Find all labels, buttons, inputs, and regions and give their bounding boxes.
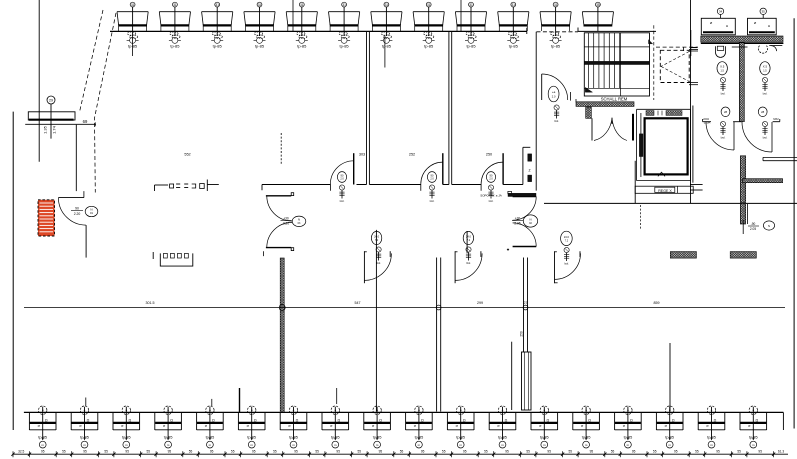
cell 2 door xyxy=(455,251,482,283)
canopy dashed edge 2 xyxy=(95,13,117,193)
window B2 line extension xyxy=(85,398,87,407)
wall stub below door D1 xyxy=(85,225,87,258)
wc symbol 2 xyxy=(762,77,767,95)
window W3 (top wall) xyxy=(202,2,233,48)
grid line right xyxy=(690,0,692,203)
svg-text:95: 95 xyxy=(463,449,467,453)
dim node hatch-cross xyxy=(279,305,285,311)
wc symbol 1 xyxy=(720,77,725,95)
svg-text:2.0: 2.0 xyxy=(552,95,556,99)
toilet door 1 xyxy=(706,122,734,150)
svg-text:61.3: 61.3 xyxy=(778,449,784,453)
svg-text:95: 95 xyxy=(674,449,678,453)
cell 1 door xyxy=(364,251,391,283)
hatched wall toilets xyxy=(701,36,784,43)
svg-text:859: 859 xyxy=(654,301,660,305)
svg-text:55: 55 xyxy=(737,449,741,453)
lobby door jamb dashes xyxy=(640,205,642,229)
svg-text:95: 95 xyxy=(168,449,172,453)
window B16 (bottom wall) xyxy=(656,406,683,448)
partition wall P3 xyxy=(535,32,537,191)
window W1 centre line extension xyxy=(132,36,134,56)
svg-text:301.5: 301.5 xyxy=(146,301,155,305)
door D5 label xyxy=(512,215,538,227)
niche lines xyxy=(763,157,797,160)
cell 3 door xyxy=(555,251,581,283)
wc label 2 xyxy=(760,62,770,75)
cell 2 line xyxy=(466,231,468,253)
svg-text:-90: -90 xyxy=(751,222,756,226)
stair dashed rail xyxy=(653,25,655,100)
wall stub xyxy=(511,342,513,410)
svg-text:95: 95 xyxy=(41,449,45,453)
door D6 (to stair lobby) xyxy=(542,74,586,102)
hatched partition toilets xyxy=(739,43,744,122)
staircase xyxy=(584,33,652,96)
window B6 (bottom wall) xyxy=(238,406,265,448)
svg-text:24.0: 24.0 xyxy=(374,234,380,238)
wall end bottom right xyxy=(782,412,784,430)
wc symbol 4 xyxy=(762,121,767,139)
column hatch 1 xyxy=(670,252,696,259)
wall stub below lift xyxy=(634,161,636,204)
door D1 swing xyxy=(58,198,86,226)
lift counterweight xyxy=(646,111,682,116)
svg-text:32.5: 32.5 xyxy=(18,449,24,453)
svg-text:35: 35 xyxy=(762,10,766,14)
svg-text:55: 55 xyxy=(611,449,615,453)
svg-text:X.5: X.5 xyxy=(720,65,725,69)
counter / furniture 1 xyxy=(155,180,219,192)
window B8 (bottom wall) xyxy=(322,406,349,448)
lift shaft dashed xyxy=(656,47,698,85)
svg-text:28: 28 xyxy=(761,110,765,114)
partition wall P4 xyxy=(437,258,441,412)
window B15 (bottom wall) xyxy=(615,406,642,448)
svg-text:2204: 2204 xyxy=(703,117,709,121)
hatched partition lower xyxy=(740,203,745,224)
window W6 (top wall) xyxy=(329,2,360,48)
lift machine box xyxy=(635,186,693,193)
hatched partition toilets 2 xyxy=(740,156,745,203)
acoustic wall Z xyxy=(523,147,532,184)
svg-text:55: 55 xyxy=(569,449,573,453)
svg-text:552: 552 xyxy=(184,153,190,157)
door D6 label xyxy=(548,86,559,102)
toilet wall line xyxy=(703,117,780,122)
wc shelf line 2 xyxy=(769,45,782,47)
door D7 label xyxy=(743,220,774,234)
svg-text:N: N xyxy=(90,208,92,212)
svg-text:95: 95 xyxy=(505,449,509,453)
svg-text:95: 95 xyxy=(125,449,129,453)
window B8 line extension xyxy=(336,388,338,404)
window W4 (top wall) xyxy=(244,2,275,48)
window B5 (bottom wall) xyxy=(197,406,224,448)
window B9 (bottom wall) xyxy=(364,406,391,448)
window W8 (top wall) xyxy=(413,2,444,48)
door D7 jamb xyxy=(746,204,748,224)
lift door (filled) xyxy=(639,134,643,157)
wall bracket left of toilets xyxy=(684,30,698,56)
window W7 (top wall) xyxy=(371,2,402,48)
cell 2 label xyxy=(463,231,473,244)
svg-text:2.05: 2.05 xyxy=(750,227,756,231)
window W12 (top wall) xyxy=(582,2,613,31)
svg-text:95: 95 xyxy=(758,449,762,453)
door D2 (room 303) xyxy=(330,153,353,191)
svg-text:299: 299 xyxy=(477,301,483,305)
svg-text:N: N xyxy=(529,217,531,221)
window B17 (bottom wall) xyxy=(698,406,725,448)
window B1 (bottom wall) xyxy=(29,406,56,448)
wall stub bottom 2 xyxy=(239,388,241,412)
svg-text:24.0: 24.0 xyxy=(466,234,472,238)
cell 2 symbol xyxy=(466,247,471,265)
svg-text:220A: 220A xyxy=(704,121,711,125)
svg-text:95: 95 xyxy=(83,449,87,453)
svg-text:90: 90 xyxy=(75,207,79,211)
svg-text:2.20: 2.20 xyxy=(283,222,289,226)
window W9 (top wall) xyxy=(455,2,486,48)
svg-text:SCHALL REM: SCHALL REM xyxy=(601,97,628,102)
wall corridor north xyxy=(262,185,523,191)
window B11 (bottom wall) xyxy=(447,406,474,448)
svg-text:55: 55 xyxy=(400,449,404,453)
svg-text:+30: +30 xyxy=(515,217,521,221)
svg-text:29: 29 xyxy=(49,99,53,103)
svg-text:X.5: X.5 xyxy=(763,65,768,69)
toilet window WT1 xyxy=(701,8,735,35)
wall stub east low xyxy=(669,343,671,412)
svg-text:95: 95 xyxy=(252,449,256,453)
partition line cell 1 xyxy=(375,230,377,412)
cell 1 label xyxy=(371,231,381,244)
svg-text:252: 252 xyxy=(409,153,415,157)
svg-text:55: 55 xyxy=(231,449,235,453)
window B10 (bottom wall) xyxy=(406,406,433,448)
svg-text:95: 95 xyxy=(632,449,636,453)
wc pan 1 xyxy=(716,46,726,57)
toilet window WT2 xyxy=(748,8,777,35)
window W4 centre line extension xyxy=(384,36,386,68)
partition wall P1 xyxy=(367,31,370,184)
svg-text:SOPOT W. a JA: SOPOT W. a JA xyxy=(480,194,502,198)
svg-text:55: 55 xyxy=(695,449,699,453)
door threshold (magnetic) xyxy=(508,191,536,196)
radiator (orange) xyxy=(38,200,55,236)
door D6 symbol xyxy=(554,105,559,123)
wc label 1 xyxy=(717,62,727,75)
svg-text:69: 69 xyxy=(83,119,88,124)
wall end tick xyxy=(577,28,579,32)
svg-text:55: 55 xyxy=(442,449,446,453)
svg-text:55: 55 xyxy=(358,449,362,453)
dashed shaft line xyxy=(280,133,282,164)
door D3 label xyxy=(427,172,436,183)
svg-text:95: 95 xyxy=(210,449,214,453)
cell 3 label xyxy=(561,231,573,245)
dimension chain bottom xyxy=(11,451,788,457)
double door V1 xyxy=(263,193,293,256)
svg-text:55: 55 xyxy=(484,449,488,453)
svg-text:2.05: 2.05 xyxy=(514,222,520,226)
cell 1 symbol xyxy=(376,247,381,265)
window B13 (bottom wall) xyxy=(531,406,558,448)
wc pan 2 xyxy=(758,46,776,54)
door D4 (room 250) xyxy=(481,153,503,191)
window W10 (top wall) xyxy=(498,2,529,48)
door D5 (lobby vestibule) xyxy=(507,197,536,251)
svg-text:55: 55 xyxy=(315,449,319,453)
svg-text:95: 95 xyxy=(547,449,551,453)
dimension line mid xyxy=(24,307,785,309)
svg-text:34: 34 xyxy=(719,10,723,14)
svg-text:55: 55 xyxy=(526,449,530,453)
door D1 header xyxy=(58,191,84,198)
partition wall P2 xyxy=(449,31,452,184)
duct riser xyxy=(522,352,532,410)
column hatch 2 xyxy=(730,252,756,259)
window W11 (top wall) xyxy=(540,2,571,48)
svg-text:55: 55 xyxy=(273,449,277,453)
svg-text:55: 55 xyxy=(104,449,108,453)
window B12 (bottom wall) xyxy=(489,406,516,448)
svg-text:+a: +a xyxy=(552,90,556,94)
svg-text:250: 250 xyxy=(520,331,524,337)
lift enclosure xyxy=(637,109,691,180)
svg-text:1.35: 1.35 xyxy=(43,125,48,134)
svg-text:95: 95 xyxy=(379,449,383,453)
wall stub left xyxy=(692,106,694,183)
counter / furniture 2 xyxy=(153,252,193,266)
door D2 label xyxy=(337,172,346,183)
svg-text:55: 55 xyxy=(147,449,151,453)
canopy dashed edge 1 xyxy=(80,10,104,112)
window B3 (bottom wall) xyxy=(113,406,140,448)
svg-text:N: N xyxy=(298,218,300,222)
double door V1 label xyxy=(281,216,306,226)
grid line stub A xyxy=(292,0,294,31)
window W2 (top wall) xyxy=(159,2,190,48)
hatched band xyxy=(743,179,783,183)
window B4 (bottom wall) xyxy=(155,406,182,448)
wc shelf line 1 xyxy=(732,46,748,48)
double mark xyxy=(690,185,703,191)
svg-text:1.74: 1.74 xyxy=(52,125,57,134)
door D1 label xyxy=(71,206,98,216)
svg-text:N: N xyxy=(768,224,770,228)
toilet door 2 xyxy=(742,122,772,152)
svg-text:55: 55 xyxy=(653,449,657,453)
column grid line left xyxy=(38,0,40,162)
wc label 3 xyxy=(721,107,730,117)
wall exterior east xyxy=(793,18,795,428)
hatched wall strip xyxy=(280,258,284,412)
door D4 label xyxy=(486,172,495,183)
cell 3 symbol xyxy=(564,247,569,265)
svg-text:55: 55 xyxy=(189,449,193,453)
svg-text:MX2: MX2 xyxy=(773,117,779,121)
svg-text:27: 27 xyxy=(524,301,528,305)
wall exterior west xyxy=(12,112,14,430)
dim node P4 xyxy=(436,305,441,310)
wall exterior bottom xyxy=(24,411,784,413)
svg-text:547: 547 xyxy=(355,301,361,305)
stair double door xyxy=(592,114,633,141)
window W5 (top wall) xyxy=(286,2,317,48)
svg-text:REGE X: REGE X xyxy=(658,189,672,193)
wall exterior top xyxy=(110,28,656,34)
window B5 line extension xyxy=(211,399,213,406)
door D4 symbol xyxy=(488,185,493,203)
level labels 1.55/1.74 xyxy=(43,125,57,134)
svg-text:24.0: 24.0 xyxy=(564,235,570,239)
wc symbol 3 xyxy=(720,121,725,139)
wall corridor lobby xyxy=(544,202,797,204)
svg-text:28: 28 xyxy=(724,110,728,114)
svg-text:2.20: 2.20 xyxy=(74,212,81,216)
wall interior left xyxy=(75,125,77,191)
dim node P5 xyxy=(523,305,528,310)
svg-text:Z: Z xyxy=(528,169,530,173)
hatched pier xyxy=(586,107,592,118)
hatched wall below stair xyxy=(576,102,634,107)
wc label 4 xyxy=(758,107,767,117)
window B14 (bottom wall) xyxy=(573,406,600,448)
window B2 (bottom wall) xyxy=(71,406,98,448)
svg-text:95: 95 xyxy=(336,449,340,453)
window W1 (top wall) xyxy=(117,2,148,48)
window B18 (bottom wall) xyxy=(740,406,767,448)
svg-text:95: 95 xyxy=(716,449,720,453)
svg-text:250: 250 xyxy=(486,153,492,157)
window W29 (left wing) xyxy=(25,96,96,139)
window B7 (bottom wall) xyxy=(280,406,307,448)
partition wall P5 xyxy=(524,258,528,353)
svg-text:95: 95 xyxy=(294,449,298,453)
door D3 (room 252) xyxy=(421,153,443,191)
svg-text:55: 55 xyxy=(62,449,66,453)
lift car xyxy=(645,118,688,174)
dimension numbers bottom xyxy=(18,449,784,453)
grid line stub B xyxy=(460,0,462,31)
lift car mark xyxy=(658,172,665,176)
svg-text:95: 95 xyxy=(421,449,425,453)
svg-text:+30: +30 xyxy=(283,217,289,221)
door D3 symbol xyxy=(429,185,434,203)
svg-text:303: 303 xyxy=(359,153,365,157)
svg-text:95: 95 xyxy=(590,449,594,453)
door D2 symbol xyxy=(339,185,344,203)
